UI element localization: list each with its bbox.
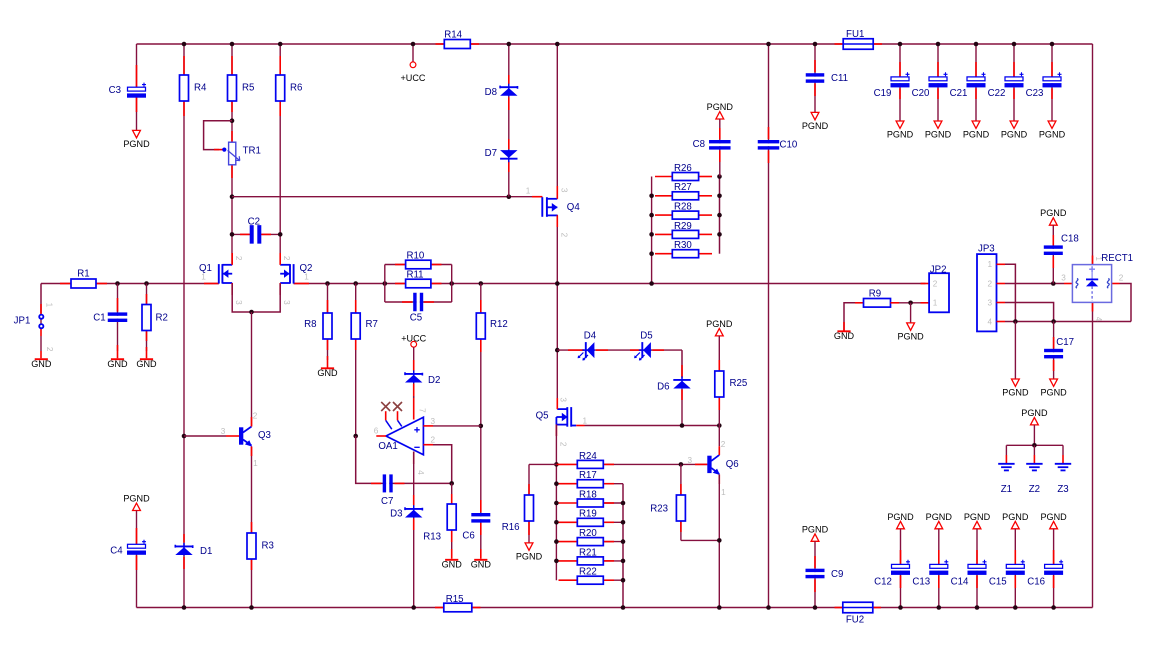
polarized capacitor C12 plates (891, 560, 910, 575)
pin OA1 pin 4 lead (413, 452, 415, 465)
capacitor C9 plates (806, 569, 825, 579)
junction D1 / bottom rail (182, 605, 187, 610)
pin C17 pin 2 (1053, 360, 1055, 371)
svg-text:3: 3 (221, 427, 226, 436)
pin C21 pin 1 (975, 62, 977, 77)
pin R20 pin 2 (603, 541, 614, 543)
diode D4 (photo) (578, 342, 595, 360)
svg-text:C20: C20 (912, 88, 930, 99)
svg-text:JP1: JP1 (14, 315, 31, 326)
wire C2 right lead (262, 233, 281, 235)
svg-text:Z1: Z1 (1001, 484, 1012, 495)
resistor R12 body (476, 313, 485, 339)
junction D3 column / bottom rail (411, 605, 416, 610)
wire C13 leg (938, 529, 940, 608)
polarized capacitor C20 plates (929, 72, 948, 87)
pin C9 pin 1 (814, 556, 816, 568)
svg-text:6: 6 (374, 427, 379, 436)
wire JP1 to GND (40, 336, 42, 351)
svg-text:R12: R12 (490, 319, 508, 330)
pin RECT1 pin 1 lead (1092, 256, 1094, 265)
pin C9 pin 2 (814, 580, 816, 593)
resistor R20 body (577, 538, 603, 546)
pin Q6 base pin 3 (695, 463, 707, 465)
wire C18 leg (1052, 225, 1054, 283)
pin R2 GND tip (146, 347, 148, 358)
svg-text:PGND: PGND (123, 494, 150, 504)
capacitor C2 plates (250, 225, 262, 244)
pin R15 pin 1 (435, 607, 444, 609)
resistor R8 body (323, 313, 332, 339)
junction C2 left junction (230, 232, 235, 237)
svg-text:PGND: PGND (1039, 129, 1066, 139)
junction main line / R12 (479, 281, 484, 286)
wire Q3 base wire (184, 435, 226, 437)
svg-text:C21: C21 (950, 88, 968, 99)
pin R20 pin 1 (559, 541, 578, 543)
junction main line / R10-C5 bracket left (383, 281, 388, 286)
junction top rail / D8 (507, 42, 512, 47)
pin C1 pin 1 (117, 298, 119, 312)
pin R18 pin 1 (559, 502, 578, 504)
diode D7 (500, 150, 517, 163)
svg-text:D7: D7 (485, 148, 497, 159)
wire TR1 wiper bracket (204, 121, 232, 150)
svg-text:C2: C2 (248, 217, 260, 228)
wire Q5 gate line (585, 425, 720, 427)
pin OA1 pin 3 lead (423, 425, 433, 427)
pin R2 pin 2 (146, 331, 148, 342)
wire R21 right link (603, 560, 623, 562)
wire C5 row (385, 301, 452, 303)
pin R16 pin 1 (528, 484, 530, 495)
svg-text:GND: GND (471, 560, 492, 570)
transistor Q5 (MOSFET) (556, 407, 576, 427)
wire Q3 collector column upper (251, 312, 253, 427)
resistor R16 body (525, 495, 534, 521)
pin JP3 pin 2 lead (997, 283, 1006, 285)
pin Q5 source pin (555, 425, 557, 436)
junction TR1 / gate line junction (230, 194, 235, 199)
svg-text:3: 3 (431, 417, 436, 426)
junction block left / R30 (649, 251, 654, 256)
svg-text:GND: GND (136, 359, 157, 369)
pin C11 pin 1 (814, 60, 816, 72)
resistor R7 body (351, 313, 360, 339)
svg-text:3: 3 (1061, 273, 1066, 282)
svg-text:2: 2 (282, 256, 291, 261)
svg-text:2: 2 (933, 279, 938, 288)
svg-text:R20: R20 (579, 528, 597, 539)
svg-text:R28: R28 (674, 202, 692, 213)
wire C7 feedback line (356, 436, 452, 483)
capacitor C11 plates (806, 73, 825, 83)
pin Q3 collector pin (251, 417, 253, 427)
wire JP3 pin3 wire (1005, 303, 1054, 322)
wire PGND leg below R9 (910, 303, 912, 323)
svg-text:1: 1 (44, 303, 53, 308)
junction block left / R27 (649, 194, 654, 199)
polarized capacitor C22 plates (1005, 72, 1024, 87)
pin R7 pin 1 (355, 300, 357, 313)
svg-text:3: 3 (558, 397, 567, 402)
wire R6-Q2 column (279, 44, 281, 265)
wire R4/D1 column (183, 44, 185, 608)
svg-text:C4: C4 (110, 545, 123, 556)
junction top rail / R6 (278, 42, 283, 47)
junction block right / R28 (717, 213, 722, 218)
resistor R15 body (444, 603, 472, 612)
svg-text:2: 2 (431, 436, 436, 445)
pin Q4 gate pin 1 (532, 196, 542, 198)
svg-text:2: 2 (253, 411, 258, 420)
pin R8 pin 1 (327, 300, 329, 313)
svg-text:OA1: OA1 (378, 441, 397, 452)
wire C21 leg (975, 44, 977, 121)
pin R24 pin 1 (556, 463, 577, 465)
power symbol PGND (above Z grounds) (1021, 408, 1048, 425)
pin C10 pin 2 (768, 151, 770, 164)
svg-text:C7: C7 (381, 496, 393, 507)
pin C11 pin 2 (814, 84, 816, 97)
wire R12-C6 leg (480, 284, 482, 552)
pin Q6 collector pin (718, 446, 720, 455)
junction top rail / R4 (182, 42, 187, 47)
resistor R25 body (715, 371, 724, 397)
svg-text:R9: R9 (869, 289, 881, 300)
svg-text:PGND: PGND (897, 331, 924, 341)
wire input line JP1 to Q1 gate (41, 283, 219, 285)
pin C18 pin 2 (1052, 257, 1054, 269)
pin Q5 gate pin (576, 425, 584, 427)
pin D6 pin anode (681, 390, 683, 401)
pin OA1 nc pin a (385, 411, 387, 420)
svg-text:R1: R1 (77, 268, 89, 279)
svg-text:PGND: PGND (707, 102, 734, 112)
wire R5-TR1-Q1 column (231, 44, 233, 265)
junction top rail / C11 (813, 42, 818, 47)
pin R28 pin 1 (655, 214, 672, 216)
pin JP1 GND tip (40, 351, 42, 358)
junction gate line / R25 (717, 423, 722, 428)
svg-text:1: 1 (304, 272, 309, 281)
svg-text:R26: R26 (674, 163, 692, 174)
wire R18 right link (603, 502, 623, 504)
svg-text:R19: R19 (579, 509, 597, 520)
svg-text:R14: R14 (444, 29, 462, 40)
wire C23 leg (1051, 44, 1053, 121)
pin R30 pin 2 (699, 253, 712, 255)
wire C11 leg (814, 44, 816, 112)
svg-text:+UCC: +UCC (401, 333, 426, 343)
svg-text:2: 2 (1119, 273, 1124, 282)
pin Q1 source pin (231, 283, 233, 295)
svg-text:R15: R15 (446, 594, 464, 605)
connector JP3 (977, 254, 997, 331)
resistor R6 body (276, 75, 285, 101)
wire Z bracket stem (1033, 425, 1035, 445)
pin R21 pin 2 (603, 560, 614, 562)
pin C20 pin 2 (937, 89, 939, 100)
wire R26 block right column (719, 177, 721, 254)
wire R19 right link (603, 521, 623, 523)
wire C1 leg (117, 284, 119, 352)
junction ladder left / R18 (554, 501, 559, 506)
pin OA1 output pin 6 (376, 435, 386, 437)
svg-text:R23: R23 (650, 503, 668, 514)
svg-text:R27: R27 (674, 182, 692, 193)
junction ladder left / R21 (554, 559, 559, 564)
polarized capacitor C15 plates (1006, 560, 1025, 575)
pin C1 GND tip (117, 345, 119, 358)
junction top rail / C20 (936, 42, 941, 47)
junction emitter / R23 link (717, 538, 722, 543)
junction R9 / PGND tap (908, 301, 913, 306)
svg-text:C10: C10 (780, 139, 798, 150)
svg-text:2: 2 (234, 256, 243, 261)
svg-text:R22: R22 (579, 567, 597, 578)
pin TR1 pin bottom (231, 166, 233, 179)
junction gate line / D6 (680, 423, 685, 428)
junction C12 / bottom rail (898, 605, 903, 610)
power symbol +UCC (top) (400, 62, 425, 83)
svg-text:JP2: JP2 (930, 264, 947, 275)
pin R17 pin 2 (603, 483, 614, 485)
wire R23 to emitter link (681, 539, 719, 541)
junction top rail / C21 (974, 42, 979, 47)
pin C2 pin 1 (240, 233, 250, 235)
svg-text:PGND: PGND (964, 512, 991, 522)
pin D5 pin anode (653, 349, 665, 351)
diode D8 (zener) (500, 84, 517, 97)
svg-text:R25: R25 (730, 378, 748, 389)
pin C18 pin 1 (1052, 235, 1054, 246)
resistor R4 body (180, 75, 189, 101)
pin RECT1 pin 2 lead (1112, 283, 1120, 285)
pin R22 pin 1 (559, 579, 578, 581)
resistor R5 body (228, 75, 237, 101)
svg-text:GND: GND (834, 331, 855, 341)
svg-text:R17: R17 (579, 470, 597, 481)
wire C19 leg (899, 44, 901, 121)
wire R26 block left column (651, 177, 653, 284)
power symbol PGND (above C13) (926, 512, 953, 529)
junction C9 / bottom rail (813, 605, 818, 610)
svg-text:PGND: PGND (123, 139, 150, 149)
junction ladder right / R19 (621, 520, 626, 525)
pin JP2 pin 1 lead (921, 302, 930, 304)
pin C12 pin 2 (900, 576, 902, 589)
pin C2 pin 2 (261, 233, 271, 235)
diode D1 (zener) (175, 543, 192, 556)
wire Z1 drop (1005, 445, 1007, 455)
pin R25 pin 1 (718, 360, 720, 371)
pin C5 pin 2 (424, 301, 434, 303)
junction ladder right / bottom rail (621, 605, 626, 610)
svg-text:C16: C16 (1027, 577, 1045, 588)
svg-text:RECT1: RECT1 (1101, 253, 1133, 264)
pin R13 pin 2 (451, 530, 453, 542)
svg-text:JP3: JP3 (978, 244, 995, 255)
svg-text:PGND: PGND (887, 129, 914, 139)
pin Q1 gate pin 1 (204, 283, 219, 285)
pin R30 pin 1 (655, 253, 672, 255)
pin R11 pin 2 (431, 283, 442, 285)
junction C15 / bottom rail (1013, 605, 1018, 610)
power symbol PGND (above C15) (1002, 512, 1029, 529)
svg-text:C9: C9 (831, 569, 843, 580)
junction pin2 net / C18 (1051, 281, 1056, 286)
junction block right / R29 (717, 232, 722, 237)
pin C19 pin 1 (899, 62, 901, 77)
polarized capacitor C14 plates (968, 560, 987, 575)
svg-text:R24: R24 (579, 451, 597, 462)
junction top rail / Q4 (555, 42, 560, 47)
wire Q6 emitter to bottom rail (718, 475, 720, 608)
wire D2 leg (413, 347, 415, 398)
wire R9 to JP2 pin 1 (891, 302, 930, 304)
pin R8 GND tip (327, 356, 329, 368)
svg-text:GND: GND (442, 560, 463, 570)
pin R10 pin 2 (431, 264, 442, 266)
svg-text:D1: D1 (200, 546, 212, 557)
resistor R30 body (672, 250, 698, 258)
wire D4-D5 line (557, 349, 682, 351)
connector JP2 (929, 273, 949, 312)
pin R6 pin 1 (279, 56, 281, 75)
svg-text:R7: R7 (366, 319, 378, 330)
wire Q4 column top (556, 44, 558, 199)
pin C17 pin 1 (1053, 337, 1055, 349)
power symbol PGND (above R25) (706, 319, 733, 336)
resistor R28 body (672, 211, 698, 219)
capacitor C18 plates (1044, 245, 1063, 255)
resistor R10 body (406, 260, 431, 269)
power symbol PGND (below R16) (516, 543, 543, 561)
wire R10 row (385, 264, 452, 266)
junction block left / R29 (649, 232, 654, 237)
capacitor C8 plates (709, 140, 731, 150)
junction block left / R28 (649, 213, 654, 218)
earth ground Z1 (998, 464, 1014, 471)
wire ladder right column (622, 484, 624, 608)
junction Z bracket middle (1032, 443, 1037, 448)
svg-text:+UCC: +UCC (400, 73, 425, 83)
svg-text:R21: R21 (579, 547, 597, 558)
pin C10 pin 1 (768, 127, 770, 139)
pin C6 GND tip (480, 549, 482, 559)
pin Q2 source pin (279, 283, 281, 295)
pin Q5 drain pin (556, 398, 558, 409)
pin R13 GND tip (451, 549, 453, 559)
power symbol PGND (above C14) (964, 512, 991, 529)
svg-text:R11: R11 (407, 270, 424, 281)
svg-text:PGND: PGND (926, 512, 953, 522)
svg-text:D3: D3 (390, 508, 402, 519)
pin Q2 gate pin 1 (294, 283, 309, 285)
svg-text:PGND: PGND (1040, 208, 1067, 218)
svg-text:1: 1 (721, 488, 726, 497)
pin D2 pin cathode (413, 360, 415, 371)
pin R22 pin 2 (603, 579, 614, 581)
junction main line / R2 (144, 281, 149, 286)
junction pin4 net / pin1 drop (1013, 319, 1018, 324)
wire R9 left corner to GND (844, 303, 864, 331)
svg-text:R13: R13 (423, 531, 441, 542)
wire C16 leg (1053, 529, 1055, 608)
fuse FU1 body (843, 39, 873, 50)
junction R12 leg / op-amp pin 3 (479, 424, 484, 429)
pin R9 pin 1 (855, 302, 864, 304)
svg-text:GND: GND (317, 368, 338, 378)
junction C10 / bottom rail (766, 605, 771, 610)
resistor R29 body (672, 230, 698, 238)
power symbol PGND (above C12) (887, 512, 914, 529)
pin C4 pin 2 (136, 556, 138, 571)
svg-text:4: 4 (988, 317, 993, 326)
pin Q1 drain pin (231, 253, 233, 265)
junction ladder left / R20 (554, 539, 559, 544)
pin C23 pin 1 (1051, 62, 1053, 77)
pin C13 pin 1 (938, 550, 940, 565)
pin C5 pin 1 (402, 301, 412, 303)
svg-text:R29: R29 (674, 221, 692, 232)
diode D5 (photo) (634, 342, 651, 360)
svg-text:1: 1 (253, 459, 258, 468)
pin C12 pin 1 (900, 550, 902, 565)
wire D5 to D6 (681, 350, 683, 378)
polarized capacitor C4 plates (127, 540, 146, 555)
power symbol PGND (below C11) (802, 112, 829, 130)
pin OA1 pin 7 lead (413, 396, 415, 420)
wire R16 branch (529, 463, 556, 465)
resistor R3 body (247, 533, 256, 559)
pin C3 pin 2 (136, 97, 138, 112)
pin C20 pin 1 (937, 62, 939, 77)
svg-text:C22: C22 (988, 88, 1006, 99)
pin R12 pin 1 (480, 300, 482, 313)
ground symbol GND (R2) (136, 359, 157, 369)
pin R9 pin 2 (891, 302, 900, 304)
svg-text:Q6: Q6 (726, 459, 739, 470)
wire R16 leg (528, 464, 530, 543)
junction R4 column / Q3 base tap (182, 434, 187, 439)
pin C19 pin 2 (899, 89, 901, 100)
svg-text:R30: R30 (674, 240, 692, 251)
pin C8 pin 1 (719, 128, 721, 139)
svg-text:D4: D4 (584, 331, 597, 342)
junction top rail / C10 (766, 42, 771, 47)
pin R28 pin 2 (699, 214, 712, 216)
connector JP1 pins (39, 315, 43, 329)
svg-text:7: 7 (418, 408, 427, 413)
pin R13 pin 1 (451, 494, 453, 504)
polarized capacitor C21 plates (967, 72, 986, 87)
pin R23 pin 2 (680, 521, 682, 532)
power symbol +UCC (op-amp supply) (401, 333, 426, 347)
diode D2 (zener) (405, 370, 422, 383)
transistor Q4 (MOSFET) (542, 197, 557, 217)
svg-text:R6: R6 (290, 82, 302, 93)
svg-text:C12: C12 (874, 577, 892, 588)
pin FU2 pin 1 (835, 607, 844, 609)
polarized capacitor C13 plates (929, 560, 948, 575)
junction main line / R8 (325, 281, 330, 286)
pin R12 pin 2 (480, 339, 482, 352)
pin R2 pin 1 (146, 294, 148, 305)
svg-text:1: 1 (201, 272, 206, 281)
polarized capacitor C23 plates (1043, 72, 1062, 87)
